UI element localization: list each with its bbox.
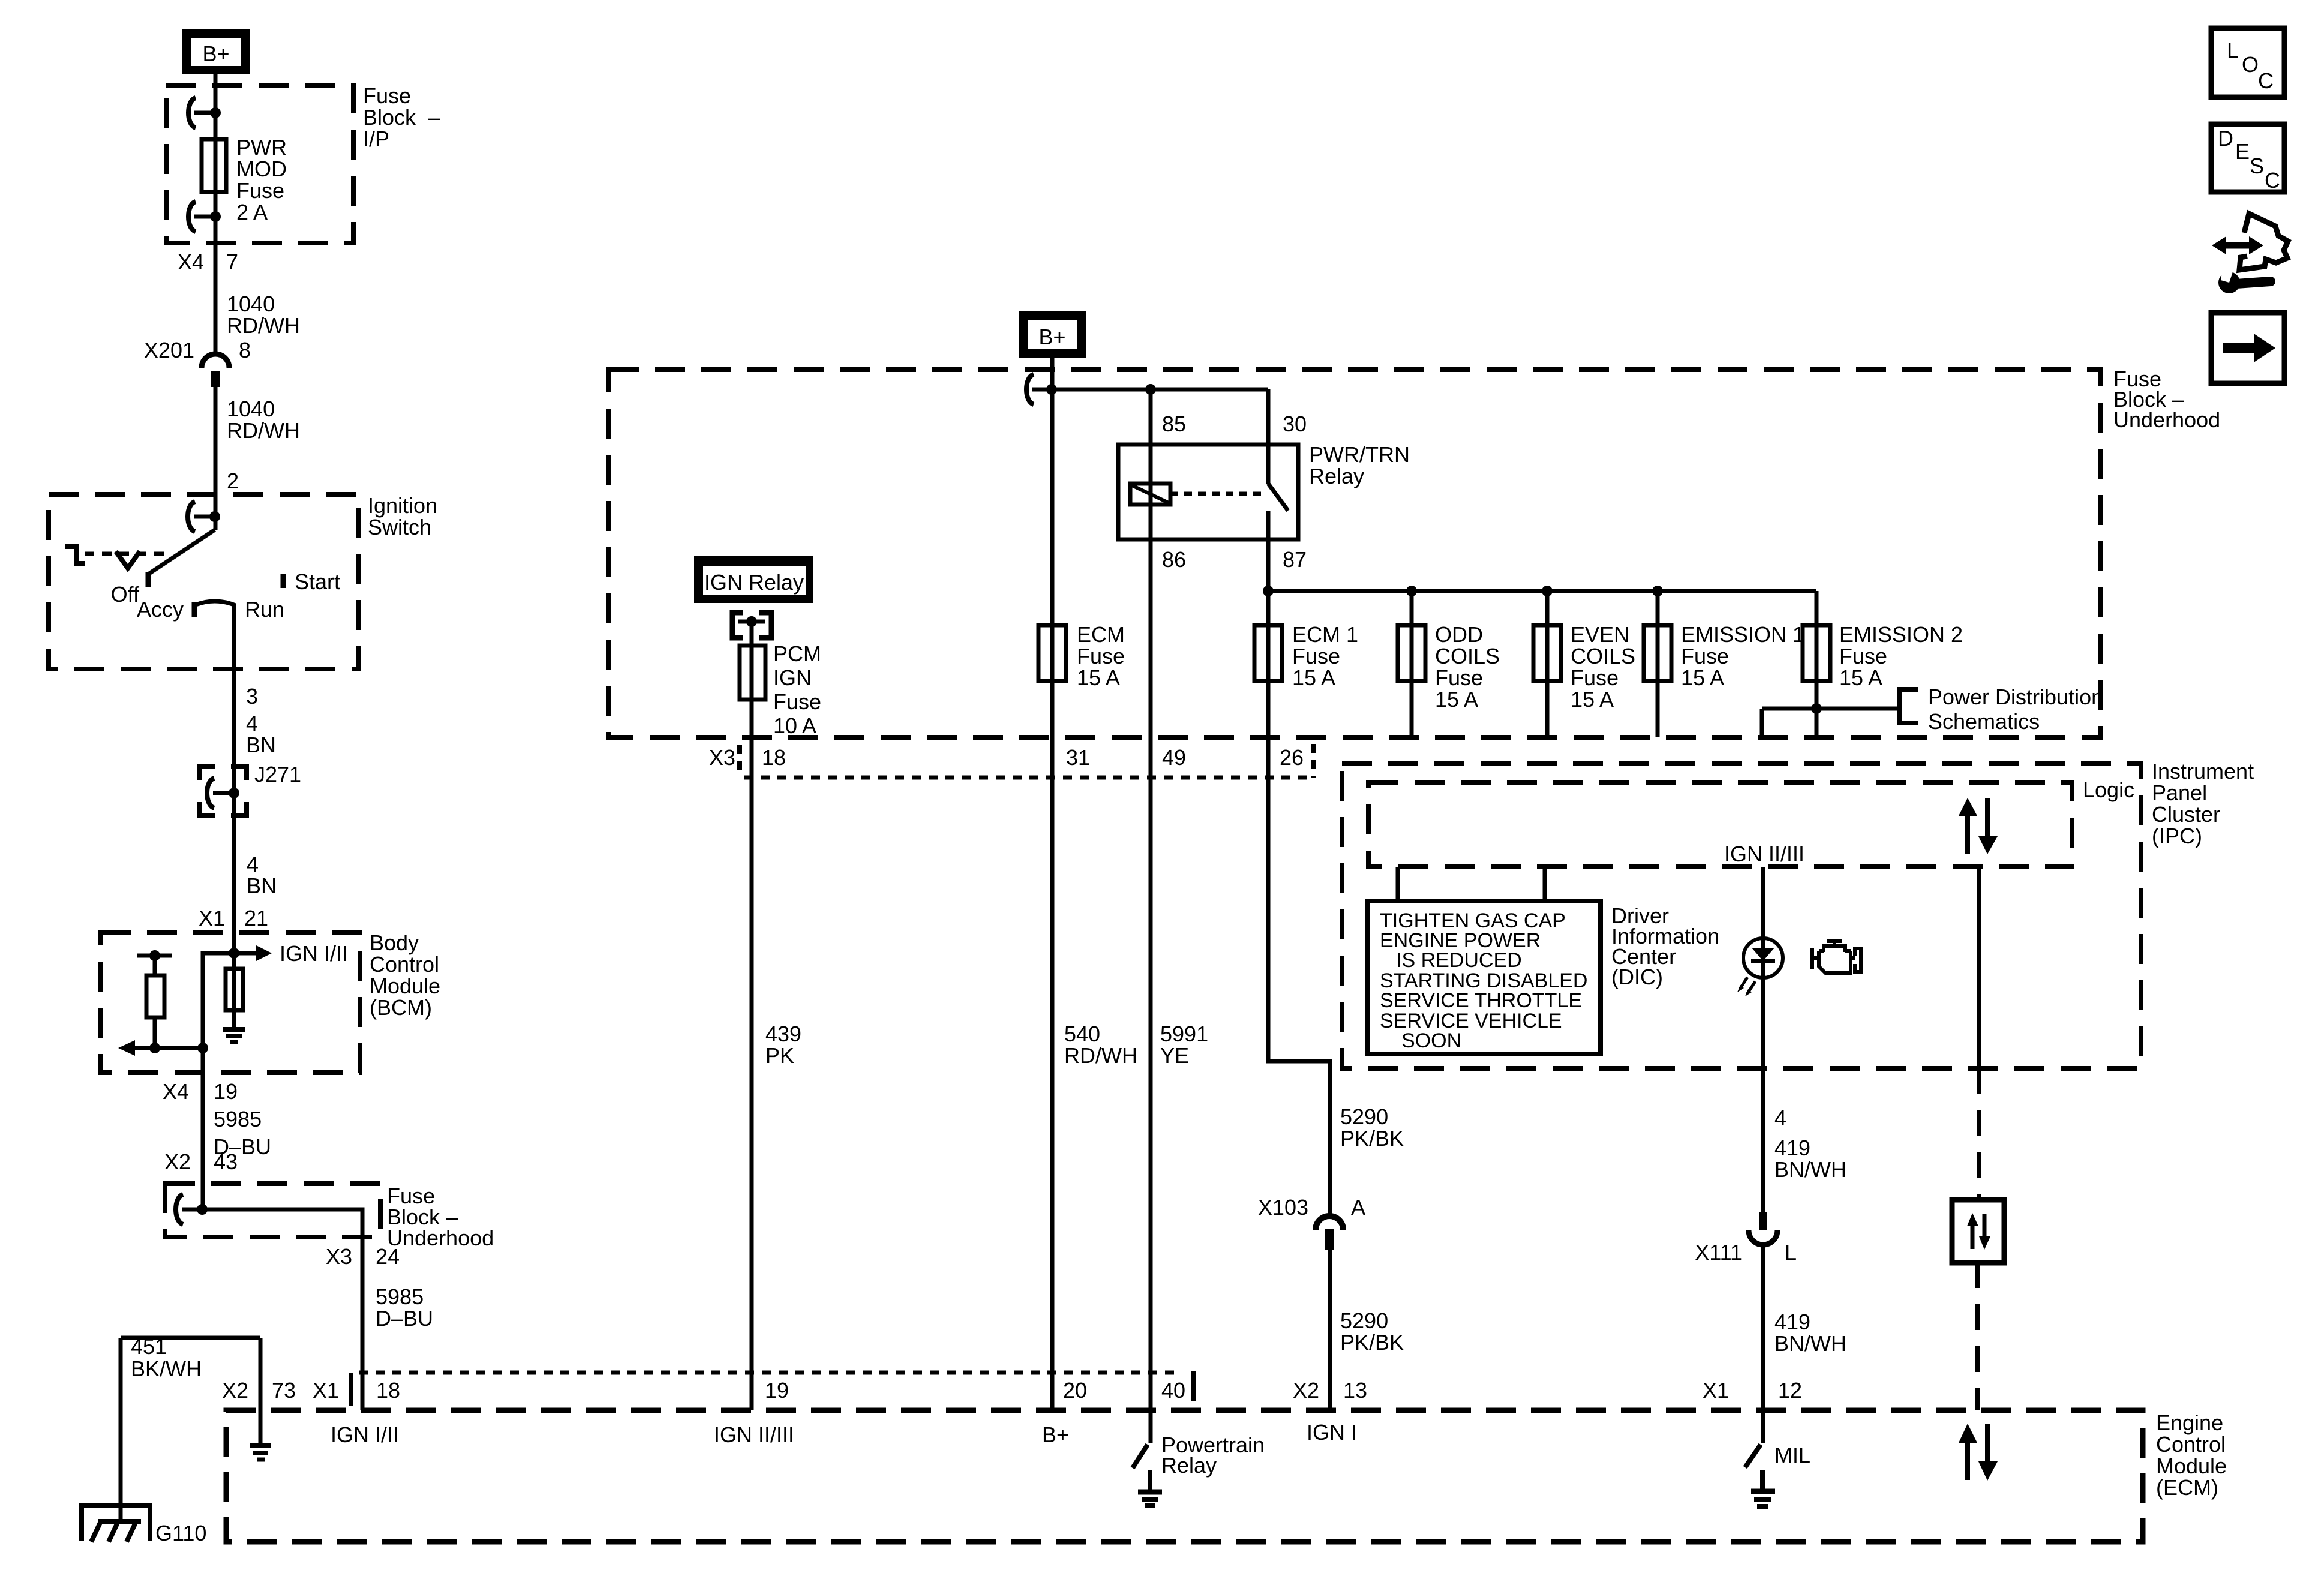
- svg-text:(DIC): (DIC): [1611, 965, 1663, 989]
- svg-text:ODD: ODD: [1435, 622, 1483, 647]
- fuse EMISSION 1 15A: [1644, 591, 1804, 737]
- ignition switch box: [49, 494, 359, 669]
- icon hotline (arrows and wrench): [2212, 214, 2288, 293]
- svg-text:10 A: 10 A: [773, 713, 816, 738]
- svg-text:IGN: IGN: [773, 665, 812, 690]
- svg-text:Power Distribution: Power Distribution: [1928, 685, 2103, 709]
- fuse block underhood label: [2113, 367, 2220, 432]
- svg-text:EMISSION 1: EMISSION 1: [1681, 622, 1804, 647]
- svg-text:IGN II/III: IGN II/III: [1724, 842, 1804, 866]
- wire B+ feed to ignition switch (1040 RD/WH): [214, 74, 218, 530]
- connector X1 pin 12 labels: [1703, 1378, 1802, 1403]
- ignition switch input clip and node: [188, 502, 220, 532]
- ECM box: [226, 1410, 2143, 1542]
- svg-text:12: 12: [1778, 1378, 1802, 1403]
- svg-text:IGN I/II: IGN I/II: [331, 1422, 399, 1447]
- IGN I/II arrow: [234, 941, 348, 966]
- svg-text:5985: 5985: [376, 1284, 424, 1309]
- svg-text:O: O: [2242, 52, 2259, 77]
- svg-text:L: L: [2227, 38, 2239, 62]
- icon forward arrow: [2211, 313, 2284, 383]
- ECM serial data arrows: [1959, 1424, 1998, 1481]
- svg-text:Relay: Relay: [1161, 1453, 1217, 1478]
- connector X1 pin 21 labels: [199, 906, 268, 930]
- connector X4 pin 19 labels: [163, 1079, 238, 1104]
- svg-text:Fuse: Fuse: [1681, 644, 1729, 668]
- B+ entry clip and node: [1026, 374, 1057, 404]
- svg-text:5290: 5290: [1340, 1308, 1388, 1333]
- wire label 5290 PK/BK (upper): [1340, 1104, 1404, 1151]
- svg-text:540: 540: [1064, 1022, 1100, 1046]
- fuse block underhood (left) box: [165, 1184, 380, 1237]
- svg-text:PWR: PWR: [236, 135, 287, 160]
- wire label 4 BN (upper): [246, 711, 276, 757]
- bus clip (fuse block I/P top): [188, 98, 221, 128]
- fused bus from pin 87: [1263, 586, 1816, 596]
- svg-text:X2: X2: [164, 1149, 191, 1174]
- svg-text:Block –: Block –: [363, 105, 440, 130]
- svg-text:A: A: [1351, 1195, 1365, 1220]
- svg-text:18: 18: [376, 1378, 400, 1403]
- svg-text:X2: X2: [1293, 1378, 1319, 1403]
- svg-text:BK/WH: BK/WH: [131, 1356, 202, 1381]
- svg-text:Fuse: Fuse: [1571, 665, 1619, 690]
- svg-text:15 A: 15 A: [1435, 687, 1478, 712]
- svg-text:5290: 5290: [1340, 1104, 1388, 1129]
- svg-text:(ECM): (ECM): [2156, 1475, 2218, 1500]
- svg-text:49: 49: [1162, 745, 1186, 770]
- connector X103 pin A: [1258, 1195, 1365, 1410]
- svg-text:Fuse: Fuse: [236, 178, 284, 203]
- fuse block I/P box: [166, 86, 353, 243]
- BCM box: [101, 933, 360, 1073]
- svg-text:419: 419: [1774, 1136, 1810, 1160]
- svg-text:20: 20: [1063, 1378, 1087, 1403]
- connector X2 pin 43 labels: [164, 1149, 238, 1174]
- svg-text:C: C: [2258, 68, 2274, 93]
- MIL driver switch: [1745, 1410, 1810, 1506]
- svg-text:IGN I/II: IGN I/II: [280, 941, 348, 966]
- key detent symbol: [65, 547, 85, 563]
- ignition switch blade: [148, 530, 215, 574]
- svg-text:26: 26: [1280, 745, 1304, 770]
- svg-text:85: 85: [1162, 412, 1186, 436]
- svg-text:2 A: 2 A: [236, 200, 268, 224]
- wire ECM1 fuse to X103 (5290 PK/BK): [1268, 591, 1330, 1215]
- BCM internal ground: [223, 1029, 245, 1042]
- svg-text:PCM: PCM: [773, 641, 821, 666]
- svg-text:X4: X4: [178, 250, 204, 274]
- svg-text:19: 19: [214, 1079, 238, 1104]
- svg-text:COILS: COILS: [1435, 644, 1500, 668]
- svg-text:L: L: [1785, 1240, 1797, 1265]
- connector X201 pin 8: [144, 338, 251, 387]
- svg-text:451: 451: [131, 1334, 167, 1359]
- wire label 451 BK/WH: [131, 1334, 202, 1381]
- MIL LED indicator: [1737, 938, 1783, 996]
- ground G110: [82, 1503, 206, 1545]
- svg-text:X1: X1: [1703, 1378, 1729, 1403]
- connector X2 pin 73 labels: [222, 1378, 296, 1403]
- icon DESC: [2211, 124, 2284, 193]
- svg-text:15 A: 15 A: [1681, 665, 1724, 690]
- svg-text:Control: Control: [370, 952, 439, 977]
- svg-text:15 A: 15 A: [1077, 665, 1120, 690]
- fuse block I/P label: [363, 83, 440, 151]
- ignition switch label: [368, 493, 437, 539]
- svg-text:X3: X3: [709, 745, 735, 770]
- DIC label: [1611, 903, 1719, 989]
- svg-text:Cluster: Cluster: [2152, 802, 2220, 827]
- svg-text:2: 2: [227, 469, 239, 493]
- svg-text:PK/BK: PK/BK: [1340, 1330, 1404, 1355]
- svg-text:SOON: SOON: [1401, 1029, 1461, 1052]
- logic serial data arrows: [1959, 798, 1998, 854]
- svg-text:15 A: 15 A: [1839, 665, 1882, 690]
- svg-text:5985: 5985: [214, 1107, 262, 1131]
- fuse EVEN COILS 15A: [1533, 591, 1635, 737]
- svg-text:419: 419: [1774, 1310, 1810, 1334]
- svg-text:Run: Run: [245, 597, 284, 622]
- svg-text:X1: X1: [199, 906, 225, 930]
- connector X4 pin 7 labels: [178, 250, 238, 274]
- svg-text:15 A: 15 A: [1292, 665, 1335, 690]
- wire label 419 BN/WH (lower): [1774, 1310, 1846, 1356]
- ECM ground at pin X2-73: [250, 1446, 271, 1460]
- svg-text:Schematics: Schematics: [1928, 709, 2040, 734]
- svg-text:(IPC): (IPC): [2152, 824, 2202, 848]
- PWR/TRN relay box: [1118, 442, 1410, 539]
- svg-text:31: 31: [1066, 745, 1090, 770]
- svg-text:B+: B+: [1042, 1422, 1069, 1447]
- svg-text:BN/WH: BN/WH: [1774, 1331, 1846, 1356]
- svg-text:ECM: ECM: [1077, 622, 1125, 647]
- svg-text:439: 439: [765, 1022, 801, 1046]
- bus clip (fuse block I/P bottom): [188, 202, 221, 232]
- fuse PWR MOD 2A: [202, 139, 226, 192]
- wiper V: [116, 551, 140, 568]
- DIC connection stubs: [1398, 867, 1545, 901]
- svg-text:BN: BN: [246, 733, 276, 757]
- bus clip (underhood left): [176, 1194, 208, 1224]
- connector X3 row (dotted): [740, 744, 1313, 778]
- DIC messages: [1380, 909, 1587, 1052]
- splice J271: [200, 762, 301, 816]
- mechanical linkage (dashed): [85, 552, 169, 556]
- svg-text:B+: B+: [202, 41, 229, 66]
- svg-text:COILS: COILS: [1571, 644, 1635, 668]
- Run contact arc: [196, 597, 284, 622]
- svg-text:S: S: [2250, 154, 2264, 178]
- BCM pull-down resistor: [226, 953, 243, 1027]
- svg-text:19: 19: [765, 1378, 789, 1403]
- svg-text:D: D: [2218, 126, 2233, 151]
- X3 row pin labels: [709, 745, 1304, 770]
- IPC label: [2152, 759, 2254, 848]
- svg-text:X201: X201: [144, 338, 194, 362]
- fuse ECM 15A: [1038, 622, 1125, 690]
- fuse PCM IGN 10A: [740, 641, 821, 738]
- relay coil wire pins 85-86 (5991 YE): [1149, 389, 1153, 1443]
- wire label 5985 D-BU (lower): [376, 1284, 433, 1331]
- svg-text:IGN Relay: IGN Relay: [704, 570, 804, 595]
- svg-text:Module: Module: [2156, 1454, 2227, 1478]
- svg-text:3: 3: [246, 684, 258, 709]
- BCM internal bus with left arrow: [118, 1040, 208, 1056]
- BCM left resistor with feed bar: [137, 950, 172, 1048]
- svg-text:Engine: Engine: [2156, 1410, 2223, 1435]
- svg-text:SERVICE THROTTLE: SERVICE THROTTLE: [1380, 989, 1582, 1012]
- ECM pin names: [714, 1420, 1357, 1447]
- connector X111 pin L: [1695, 1212, 1797, 1265]
- svg-text:EVEN: EVEN: [1571, 622, 1629, 647]
- svg-text:J271: J271: [254, 762, 301, 786]
- svg-text:Body: Body: [370, 930, 419, 955]
- wire label 5985 D-BU (upper): [214, 1107, 271, 1159]
- svg-text:I/P: I/P: [363, 127, 389, 151]
- relay socket symbol: [732, 613, 771, 638]
- svg-text:RD/WH: RD/WH: [1064, 1043, 1137, 1068]
- DIC box: [1367, 901, 1601, 1054]
- ECM label: [2156, 1410, 2227, 1500]
- IGN Relay label box: [694, 556, 813, 603]
- connector X1 pin 18 labels: [313, 1378, 400, 1403]
- svg-text:BN/WH: BN/WH: [1774, 1157, 1846, 1182]
- wire label 5290 PK/BK (lower): [1340, 1308, 1404, 1355]
- wire B+ to ECM fuse and pin 20 (540 RD/WH): [1050, 358, 1055, 1410]
- svg-text:43: 43: [214, 1149, 238, 1174]
- svg-text:X3: X3: [326, 1244, 352, 1269]
- ECM pin row labels: [765, 1378, 1367, 1403]
- svg-text:30: 30: [1283, 412, 1307, 436]
- svg-text:Panel: Panel: [2152, 781, 2207, 805]
- svg-text:E: E: [2235, 139, 2250, 164]
- pin 4 and 419 BN/WH labels: [1774, 1106, 1846, 1182]
- serial data line IPC to connector: [1977, 867, 1981, 1200]
- svg-text:40: 40: [1161, 1378, 1185, 1403]
- svg-text:21: 21: [244, 906, 268, 930]
- BCM internal wire to output: [203, 953, 234, 1048]
- svg-text:Ignition: Ignition: [368, 493, 437, 518]
- serial data dashed line to ECM: [1975, 1262, 1980, 1410]
- relay coil: [1130, 484, 1170, 505]
- fuse ODD COILS 15A: [1398, 591, 1500, 737]
- Off contact: [111, 572, 148, 607]
- fuse block underhood (left) label: [387, 1184, 494, 1250]
- svg-text:15 A: 15 A: [1571, 687, 1614, 712]
- svg-text:Relay: Relay: [1309, 464, 1364, 488]
- relay pin labels 85 30 86 87: [1162, 412, 1307, 572]
- svg-text:YE: YE: [1160, 1043, 1189, 1068]
- relay switch pins 30-87: [1268, 389, 1288, 591]
- svg-text:Switch: Switch: [368, 515, 431, 539]
- svg-text:RD/WH: RD/WH: [227, 418, 300, 443]
- node B+ terminal (top left): [182, 29, 250, 74]
- svg-text:4: 4: [1774, 1106, 1786, 1130]
- svg-text:(BCM): (BCM): [370, 995, 432, 1020]
- svg-text:C: C: [2265, 168, 2280, 193]
- svg-text:Logic: Logic: [2083, 778, 2134, 802]
- svg-text:MIL: MIL: [1774, 1443, 1810, 1467]
- svg-text:Fuse: Fuse: [363, 83, 411, 108]
- svg-text:Accy: Accy: [137, 597, 184, 622]
- BCM input node: [229, 948, 239, 959]
- svg-text:18: 18: [762, 745, 786, 770]
- wire label 1040 RD/WH (upper): [227, 292, 300, 338]
- svg-text:BN: BN: [247, 873, 277, 898]
- svg-text:X4: X4: [163, 1079, 189, 1104]
- svg-text:PWR/TRN: PWR/TRN: [1309, 442, 1410, 467]
- connector X1 row (dotted): [351, 1371, 1194, 1406]
- wire labels 439 PK / 540 RD-WH / 5991 YE: [765, 1022, 1208, 1068]
- power distribution tap: [1762, 685, 2103, 736]
- svg-text:Module: Module: [370, 974, 440, 998]
- svg-text:73: 73: [272, 1378, 296, 1403]
- svg-text:Fuse: Fuse: [1839, 644, 1887, 668]
- svg-text:8: 8: [239, 338, 251, 362]
- Start contact: [283, 569, 340, 594]
- wire MIL lamp (419 BN/WH): [1761, 867, 1765, 1410]
- svg-text:87: 87: [1283, 547, 1307, 572]
- svg-text:7: 7: [226, 250, 238, 274]
- svg-text:Underhood: Underhood: [387, 1226, 494, 1250]
- B+ bus horizontal: [1052, 384, 1268, 395]
- svg-text:Control: Control: [2156, 1432, 2226, 1457]
- svg-text:X103: X103: [1258, 1195, 1308, 1220]
- connector X3 pin 24 labels: [326, 1244, 400, 1269]
- svg-text:X2: X2: [222, 1378, 248, 1403]
- fuse EMISSION 2 15A: [1803, 591, 1963, 736]
- wire PCM IGN fuse to pin 19 (439 PK): [750, 622, 754, 1410]
- svg-text:X1: X1: [313, 1378, 339, 1403]
- svg-text:1040: 1040: [227, 397, 275, 421]
- svg-text:IGN II/III: IGN II/III: [714, 1422, 794, 1447]
- svg-text:PK: PK: [765, 1043, 794, 1068]
- svg-text:RD/WH: RD/WH: [227, 313, 300, 338]
- wire label 4 BN (lower): [247, 852, 277, 898]
- ground wire 451 BK/WH: [121, 1338, 260, 1509]
- PWR MOD fuse label: [236, 135, 287, 224]
- svg-text:ECM 1: ECM 1: [1292, 622, 1358, 647]
- wire Run output to BCM (ckt 4 BN): [232, 605, 236, 953]
- powertrain relay control switch: [1133, 1433, 1265, 1506]
- relay actuation dashed link: [1170, 492, 1263, 496]
- svg-text:MOD: MOD: [236, 157, 287, 181]
- svg-text:Underhood: Underhood: [2113, 407, 2220, 432]
- Accy contact: [137, 597, 194, 622]
- fuse block underhood box: [609, 370, 2100, 737]
- wire label 1040 RD/WH (lower): [227, 397, 300, 443]
- svg-text:Off: Off: [111, 582, 140, 607]
- svg-text:13: 13: [1343, 1378, 1367, 1403]
- svg-text:1040: 1040: [227, 292, 275, 316]
- node B+ terminal (middle): [1019, 311, 1086, 358]
- svg-text:5991: 5991: [1160, 1022, 1208, 1046]
- svg-text:Fuse: Fuse: [1292, 644, 1340, 668]
- IPC box: [1342, 763, 2141, 1068]
- svg-text:4: 4: [246, 711, 258, 736]
- svg-text:IS REDUCED: IS REDUCED: [1396, 949, 1522, 972]
- svg-text:B+: B+: [1038, 325, 1065, 349]
- svg-text:86: 86: [1162, 547, 1186, 572]
- svg-text:D–BU: D–BU: [376, 1306, 433, 1331]
- wire BCM to underhood fuse block (5985 D-BU): [201, 1048, 205, 1209]
- svg-text:IGN I: IGN I: [1307, 1420, 1357, 1445]
- svg-text:4: 4: [247, 852, 259, 876]
- BCM label: [370, 930, 440, 1020]
- engine icon (check engine): [1812, 941, 1861, 973]
- icon LOC: [2211, 28, 2284, 97]
- svg-text:Start: Start: [295, 569, 340, 594]
- svg-text:Fuse: Fuse: [773, 689, 821, 714]
- wire to X3 pin 24: [202, 1209, 362, 1410]
- svg-text:X111: X111: [1695, 1240, 1742, 1265]
- fuse ECM 1 15A: [1254, 622, 1358, 690]
- svg-text:Instrument: Instrument: [2152, 759, 2254, 784]
- logic box: [1368, 778, 2134, 867]
- svg-text:Fuse: Fuse: [1435, 665, 1483, 690]
- svg-text:PK/BK: PK/BK: [1340, 1126, 1404, 1151]
- svg-text:EMISSION 2: EMISSION 2: [1839, 622, 1963, 647]
- serial data connector box: [1952, 1200, 2004, 1263]
- svg-text:Fuse: Fuse: [1077, 644, 1125, 668]
- svg-text:24: 24: [376, 1244, 400, 1269]
- svg-text:G110: G110: [155, 1521, 206, 1545]
